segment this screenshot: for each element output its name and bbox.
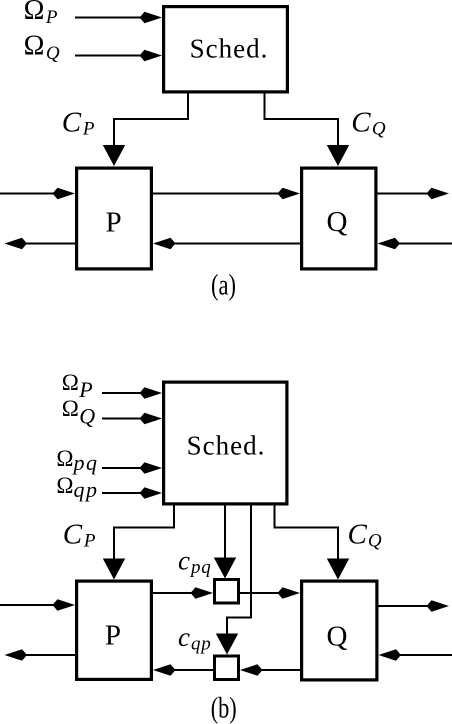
wire external input to Q (b)	[391, 654, 452, 656]
arrowhead into Q right (b)	[379, 649, 402, 661]
svg-text:cpq: cpq	[178, 546, 212, 579]
arrowhead Omega_qp into Sched (b)	[140, 487, 163, 499]
svg-text:CP: CP	[62, 106, 95, 139]
arrowhead into P left (b)	[53, 599, 76, 611]
wire Q to P (a)	[165, 243, 300, 245]
svg-text:CP: CP	[63, 519, 96, 552]
wire Sched to Q drop (b)	[275, 504, 339, 560]
svg-text:Ωqp: Ωqp	[56, 473, 98, 502]
wire external input to P (a)	[0, 193, 60, 195]
svg-text:(b): (b)	[211, 692, 237, 724]
arrowhead into Q right (a)	[378, 238, 401, 250]
block c_qp (b)	[215, 656, 239, 680]
arrowhead Q output right (a)	[427, 188, 450, 200]
arrowhead into P right (b)	[153, 664, 176, 676]
wire external input to Q (a)	[390, 243, 452, 245]
wire Q output right (a)	[378, 193, 438, 195]
svg-text:(a): (a)	[211, 269, 236, 302]
wire Omega_Q input (a)	[75, 55, 150, 57]
arrowhead Omega_P into Sched (b)	[140, 387, 163, 399]
wire Omega_pq input (b)	[102, 467, 150, 469]
arrowhead into c_pq left (b)	[191, 587, 214, 599]
svg-text:Q: Q	[327, 621, 348, 653]
wire Omega_P input (a)	[75, 17, 150, 19]
arrowhead into Q left (b)	[278, 587, 301, 599]
wire Sched to P drop (a)	[114, 92, 188, 147]
wire Omega_qp input (b)	[102, 492, 150, 494]
arrowhead P output left (a)	[5, 238, 28, 250]
block Sched (b)	[164, 382, 287, 504]
block P (a)	[77, 168, 152, 269]
block Q (a)	[302, 168, 376, 269]
svg-text:Q: Q	[327, 206, 348, 238]
arrowhead into Q left (a)	[278, 188, 301, 200]
wire Sched to c_qp drop (b)	[227, 504, 251, 635]
wire P to c_pq (b)	[153, 592, 201, 594]
arrowhead P output left (b)	[5, 649, 28, 661]
svg-text:ΩQ: ΩQ	[24, 31, 60, 64]
wire c_qp to P (b)	[165, 669, 213, 671]
wire Omega_Q input (b)	[102, 418, 150, 420]
wire P output left (b)	[17, 654, 75, 656]
svg-text:Ωpq: Ωpq	[56, 446, 98, 475]
svg-text:cqp: cqp	[178, 622, 212, 655]
arrowhead into P right (a)	[153, 238, 176, 250]
wire Q to c_qp (b)	[252, 669, 300, 671]
svg-text:P: P	[105, 620, 121, 652]
wire Sched to Q drop (a)	[265, 92, 339, 147]
arrowhead Omega_Q into Sched (b)	[140, 413, 163, 425]
wire Sched to c_pq drop (b)	[224, 504, 226, 558]
svg-text:Sched.: Sched.	[187, 431, 266, 461]
arrowhead Omega_Q into Sched (a)	[140, 50, 163, 62]
wire Omega_P input (b)	[102, 392, 150, 394]
arrowhead Omega_P into Sched (a)	[140, 12, 163, 24]
arrowhead Omega_pq into Sched (b)	[140, 462, 163, 474]
arrowhead into P left (a)	[53, 188, 76, 200]
arrowhead into c_qp right (b)	[240, 664, 263, 676]
arrowhead Q output right (b)	[427, 600, 450, 612]
wire c_pq to Q (b)	[240, 592, 288, 594]
svg-text:CQ: CQ	[351, 106, 386, 139]
arrowhead into c_qp top (b)	[216, 634, 238, 655]
wire external input to P (b)	[0, 604, 60, 606]
svg-text:CQ: CQ	[348, 519, 382, 552]
block Q (b)	[302, 581, 377, 680]
arrowhead C_Q into Q (b)	[327, 559, 349, 580]
block P (b)	[77, 581, 152, 679]
wire Sched to P drop (b)	[114, 504, 174, 560]
block Sched (a)	[164, 7, 288, 92]
svg-text:Sched.: Sched.	[190, 34, 269, 64]
block c_pq (b)	[215, 580, 239, 604]
arrowhead C_P into P (b)	[103, 559, 125, 580]
arrowhead C_Q into Q (a)	[327, 145, 349, 166]
wire Q output right (b)	[379, 605, 438, 607]
arrowhead C_P into P (a)	[103, 145, 125, 166]
wire P to Q (a)	[153, 193, 288, 195]
svg-text:P: P	[106, 206, 122, 238]
wire P output left (a)	[17, 243, 75, 245]
svg-text:ΩP: ΩP	[24, 0, 58, 28]
arrowhead into c_pq top (b)	[214, 558, 236, 579]
